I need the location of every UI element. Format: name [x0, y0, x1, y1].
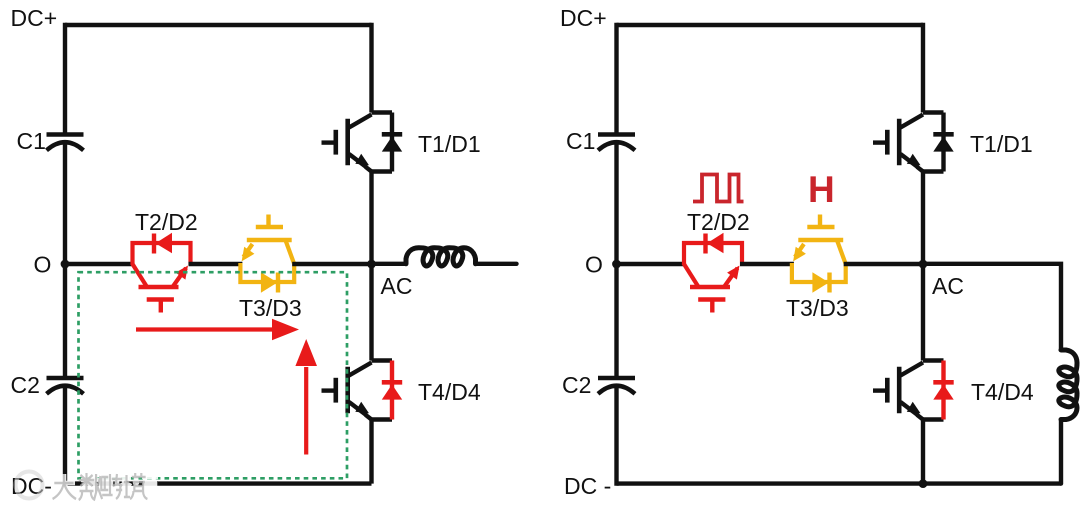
capacitor C1 [47, 132, 84, 136]
transistor T1/D1 (IGBT) [873, 113, 954, 172]
wire: right rail AC node to T4 [921, 264, 925, 361]
svg-text:AC: AC [381, 273, 413, 299]
svg-text:DC+: DC+ [11, 5, 58, 31]
svg-text:T3/D3: T3/D3 [786, 295, 849, 321]
wire: T3 to AC node [844, 262, 923, 266]
wire: right rail T1 to AC node [369, 172, 373, 265]
wire: left rail O node to C2 [614, 264, 618, 378]
wire: right rail T1 to AC node [921, 172, 925, 265]
capacitor C1 [598, 132, 635, 136]
svg-text:C1: C1 [566, 128, 595, 154]
wire: left rail upper (DC+ to C1) [63, 23, 67, 135]
svg-text:C2: C2 [11, 372, 40, 398]
transistor T2/D2 (red IGBT with diode) [133, 233, 191, 313]
svg-text:C1: C1 [17, 128, 46, 154]
capacitor C2 [47, 376, 84, 380]
wire: left rail C1 to O node [614, 142, 618, 265]
svg-text:T3/D3: T3/D3 [239, 295, 302, 321]
svg-text:T1/D1: T1/D1 [418, 131, 481, 157]
transistor T3/D3 (yellow IGBT with diode) [240, 215, 294, 293]
wire: T2 to T3 [740, 262, 794, 266]
watermark logo swirl [16, 472, 43, 499]
svg-text:O: O [34, 252, 52, 278]
wire: AC node to coil [372, 262, 407, 266]
current path arrow (horizontal) [136, 327, 273, 331]
wire: DC- bottom rail [65, 481, 372, 485]
inductor (AC output coil, left diagram) [406, 248, 476, 266]
node O (junction dot) [612, 260, 621, 269]
svg-text:H: H [808, 169, 835, 210]
node AC (junction dot) [919, 260, 928, 269]
transistor T4/D4 (IGBT) [322, 361, 403, 420]
transistor T2/D2 (red IGBT with diode) [684, 233, 742, 313]
wire: left rail C2 to DC- [614, 385, 618, 486]
wire: coil to output end [476, 262, 517, 266]
wire: O node to T2 [65, 262, 135, 266]
wire: left rail upper (DC+ to C1) [614, 23, 618, 135]
wire: O node to T2 [617, 262, 687, 266]
wire: right rail top (DC+ to T1) [369, 23, 373, 113]
transistor T4/D4 (IGBT) [873, 361, 954, 420]
wire: AC node to load (right diagram) [923, 264, 1061, 351]
wire: T3 to AC node [292, 262, 371, 266]
wire: T2 to T3 [189, 262, 243, 266]
svg-text:T1/D1: T1/D1 [970, 131, 1033, 157]
svg-text:O: O [585, 252, 603, 278]
svg-text:T4/D4: T4/D4 [971, 379, 1034, 405]
node O (junction dot) [61, 260, 70, 269]
node AC (junction dot) [367, 260, 376, 269]
current path arrow (vertical) [304, 367, 308, 455]
svg-text:DC -: DC - [564, 473, 611, 499]
svg-text:DC+: DC+ [560, 5, 607, 31]
wire: left rail O node to C2 [63, 264, 67, 378]
wire: left rail C1 to O node [63, 142, 67, 265]
transistor T3/D3 (yellow IGBT with diode) [792, 215, 846, 293]
inductor (load coil, right diagram) [1059, 350, 1077, 420]
gate signal square wave (red) [693, 175, 744, 202]
node: T4 emitter junction on DC- rail [919, 479, 928, 488]
commutation loop (green dashed box) [79, 272, 348, 478]
watermark text 大数跨境 [51, 473, 160, 500]
svg-text:C2: C2 [562, 372, 591, 398]
wire: right rail AC node to T4 [369, 264, 373, 361]
svg-text:T2/D2: T2/D2 [687, 209, 750, 235]
wire: load coil to DC- rail [1059, 421, 1063, 484]
wire: DC+ top rail [617, 23, 924, 27]
capacitor C2 [598, 376, 635, 380]
wire: left rail C2 to DC- [63, 385, 67, 486]
svg-text:T4/D4: T4/D4 [418, 379, 481, 405]
wire: right rail T4 to DC- [369, 420, 373, 484]
wire: DC+ top rail [65, 23, 372, 27]
svg-text:T2/D2: T2/D2 [135, 209, 198, 235]
svg-text:AC: AC [932, 273, 964, 299]
wire: right rail T4 to DC- [921, 420, 925, 484]
wire: right rail top (DC+ to T1) [921, 23, 925, 113]
transistor T1/D1 (IGBT) [322, 113, 403, 172]
wire: DC- bottom rail [617, 481, 1062, 485]
